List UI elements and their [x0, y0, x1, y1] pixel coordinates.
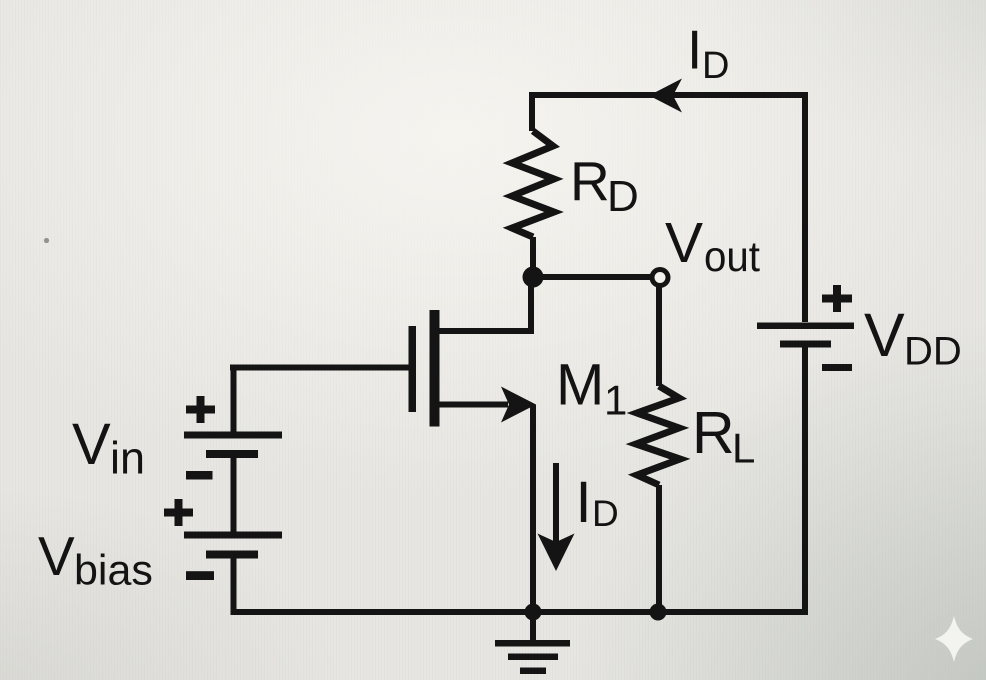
svg-text:M: M	[556, 353, 604, 418]
dust speck	[44, 238, 49, 243]
wire: source vertical down to ground rail	[530, 405, 536, 613]
transistor M1 channel bar	[430, 310, 440, 427]
wire: between Vin and Vbias batteries	[231, 457, 237, 532]
svg-text:V: V	[864, 301, 905, 369]
arrow: I_D current arrow on top wire (pointing left)	[649, 79, 682, 113]
svg-text:I: I	[576, 470, 592, 535]
wire: drain lead of M1 up to junction	[439, 279, 531, 331]
polarity - of V_in	[186, 471, 213, 480]
resistor R_D	[512, 131, 554, 237]
svg-text:DD: DD	[904, 330, 962, 374]
wire: top loop from R_D top to right rail	[532, 95, 805, 322]
wire: gate lead from left branch to gate bar	[230, 365, 409, 371]
ground	[495, 612, 570, 674]
wire: right rail below VDD battery	[802, 347, 808, 612]
svg-text:R: R	[570, 150, 610, 212]
polarity - of V_DD	[822, 364, 852, 371]
node: drain junction dot	[523, 267, 544, 288]
svg-text:D: D	[592, 493, 619, 534]
svg-text:V: V	[38, 525, 75, 587]
arrow: I_D drain-current arrow beside M1 source (pointing down)	[553, 463, 559, 542]
node Vout: open terminal circle	[652, 270, 668, 286]
wire: drain junction down from R_D to junction node	[530, 237, 536, 277]
wire: bottom ground rail	[231, 609, 809, 615]
battery V_in plates	[184, 432, 282, 439]
transistor M1 source arrow	[501, 387, 536, 423]
resistor R_L	[636, 386, 680, 485]
polarity + of V_bias	[164, 499, 193, 526]
svg-text:D: D	[607, 172, 639, 221]
svg-text:V: V	[72, 412, 111, 477]
svg-text:V: V	[665, 211, 703, 275]
battery V_bias plates	[184, 532, 282, 539]
svg-text:I: I	[687, 19, 702, 81]
transistor M1 gate bar	[409, 326, 417, 412]
wire: junction to Vout terminal	[533, 274, 650, 280]
node: bottom rail junction at ground	[525, 604, 542, 621]
svg-text:R: R	[692, 400, 735, 466]
battery V_DD plates	[757, 323, 854, 330]
wire: Vout terminal down to R_L top	[656, 287, 662, 386]
svg-text:in: in	[110, 432, 145, 483]
polarity - of V_bias	[186, 571, 214, 580]
sparkle icon	[935, 616, 973, 662]
polarity + of V_in	[186, 396, 215, 423]
svg-text:1: 1	[604, 377, 627, 424]
wire: source lead of M1	[439, 402, 508, 408]
svg-text:out: out	[704, 233, 760, 281]
svg-text:bias: bias	[74, 547, 153, 595]
wire: R_L bottom to ground rail	[656, 485, 662, 612]
svg-text:L: L	[732, 424, 755, 471]
wire: below Vbias battery to bottom rail	[231, 558, 237, 612]
wire: left branch vertical from gate to Vin battery	[231, 368, 237, 433]
node: bottom rail junction at R_L	[650, 604, 667, 621]
svg-text:D: D	[702, 45, 729, 87]
polarity + of V_DD	[822, 285, 852, 312]
